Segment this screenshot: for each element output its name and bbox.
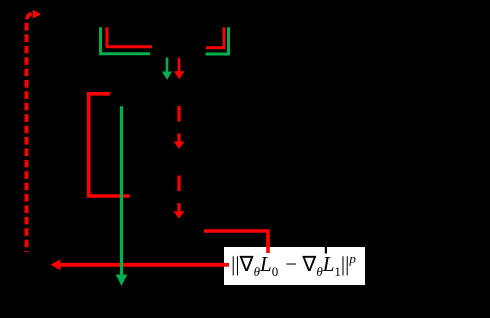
left bracket red L [107, 27, 152, 47]
long green down arrow [116, 106, 128, 285]
left bracket green L [101, 27, 151, 53]
red dashed arrow step 2 [174, 176, 185, 219]
red dashed arrow step 1 [174, 106, 185, 149]
right bracket red L [206, 27, 224, 48]
right bracket green L [206, 27, 229, 54]
black tick entering formula box top [325, 247, 327, 254]
formula box [224, 247, 365, 285]
red open bracket (left middle) [89, 94, 130, 196]
red connector from dashed path to formula box [204, 231, 268, 253]
red down arrow (center) [174, 58, 184, 80]
green down arrow (center) [162, 58, 172, 80]
formula text ||∇θL0 − ∇θL1||^p [223, 247, 364, 284]
dashed feedback loop arrow (left, red, curves right at top) [27, 10, 42, 252]
long red left arrow from formula box [51, 259, 230, 270]
